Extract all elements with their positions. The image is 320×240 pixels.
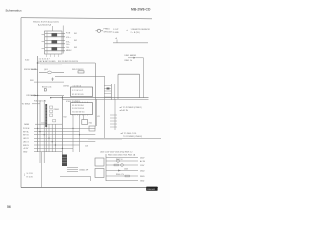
wire elbow to cluster xyxy=(142,57,144,59)
svg-text:L11: L11 xyxy=(97,116,100,118)
wire vertical x115 xyxy=(114,99,116,130)
IC U001 bottom pins xyxy=(73,114,88,117)
svg-text:P.ON H: P.ON H xyxy=(23,128,30,130)
node dot bus2 xyxy=(37,95,38,96)
frame bottom border xyxy=(21,187,158,189)
wire y176.5 xyxy=(60,176,91,178)
node dot bus y63 xyxy=(37,62,38,63)
svg-text:KEY B: KEY B xyxy=(23,135,29,137)
svg-text:FROM SW: FROM SW xyxy=(24,69,34,71)
svg-text:LED G: LED G xyxy=(23,142,29,144)
wire bus row y63 xyxy=(37,62,96,64)
svg-text:R601 C601 D601 T601 F601 1A: R601 C601 D601 T601 F601 1A xyxy=(108,154,136,157)
node dots ladder xyxy=(37,128,80,149)
wire y138.7 right xyxy=(88,139,122,141)
transistor Q1 xyxy=(39,71,64,74)
label block tag xyxy=(146,187,157,191)
svg-text:SW-501: SW-501 xyxy=(147,189,156,191)
wire SW row 6 xyxy=(45,50,65,52)
component P601 box xyxy=(95,158,104,166)
svg-text:PH801: PH801 xyxy=(104,29,111,31)
wire right row 3 xyxy=(106,170,138,172)
component X1 box xyxy=(82,120,88,125)
wire ladder row7 xyxy=(34,147,73,149)
lamp symbol row2 xyxy=(121,164,124,167)
IC U001 top pins xyxy=(73,101,88,104)
connector SW board outline xyxy=(45,31,63,54)
svg-text:D1 D2 D3 D4: D1 D2 D3 D4 xyxy=(72,108,85,110)
svg-text:CN701: CN701 xyxy=(63,85,70,87)
svg-text:R01 220 R02 220 R03 220: R01 220 R02 220 R03 220 xyxy=(58,61,78,63)
wire long y42.6 xyxy=(113,42,148,44)
svg-text:S1 S2 S3 S4: S1 S2 S3 S4 xyxy=(72,105,84,107)
svg-text:D801 MA165: D801 MA165 xyxy=(125,54,138,57)
wire pin stub p2 xyxy=(50,54,52,57)
wire y97.7 xyxy=(51,97,149,99)
wire node A stub xyxy=(116,40,118,43)
component small d xyxy=(44,89,46,91)
svg-text:CN601: CN601 xyxy=(54,109,60,111)
resistor R1 xyxy=(78,71,84,73)
connector CN701 box xyxy=(71,87,93,97)
wire vertical x62.4 xyxy=(61,96,63,155)
wire cluster to vertical xyxy=(136,57,144,59)
svg-text:LED R: LED R xyxy=(23,138,29,140)
svg-text:230V: 230V xyxy=(140,157,145,159)
wire vertical x79.5 xyxy=(79,115,81,153)
wire vertical x44 xyxy=(43,100,45,163)
wire y82 xyxy=(34,81,64,83)
wire pin stub p1 xyxy=(46,54,48,57)
wire faint y64.5 xyxy=(40,64,62,66)
svg-text:VOL-: VOL- xyxy=(66,41,71,43)
wire vertical x73 xyxy=(72,115,74,153)
svg-text:CN602 4P: CN602 4P xyxy=(79,169,89,171)
wire CN602 row c xyxy=(67,170,78,172)
wire ladder row1 xyxy=(34,127,95,129)
wire SW row 5 xyxy=(45,47,65,49)
wire SW row 1 xyxy=(45,33,65,35)
wire right row 4 xyxy=(106,175,138,177)
svg-text:SW-DC B (TV) board (1/2): SW-DC B (TV) board (1/2) xyxy=(33,20,59,23)
svg-text:DATA: DATA xyxy=(24,123,29,126)
switch S2 xyxy=(52,40,58,43)
component D601 box xyxy=(89,126,95,131)
wire stub left s3 xyxy=(42,48,45,50)
hatch cluster stubs xyxy=(110,115,117,127)
wire ladder row5 xyxy=(34,141,95,143)
svg-text:SIRCS: SIRCS xyxy=(23,145,30,147)
wire right bus x106 xyxy=(105,154,107,181)
connector CN602 dark xyxy=(62,155,67,167)
wire vertical x95.3 xyxy=(94,63,96,127)
svg-text:+B 5V: +B 5V xyxy=(23,148,29,150)
wire vertical x143.4 xyxy=(142,58,144,98)
wire horizontal y74.2 xyxy=(118,73,140,75)
svg-text:L601 0.047 250V C605 470p: L601 0.047 250V C605 470p R609 2.2 xyxy=(100,151,132,153)
wire vertical x139.5 xyxy=(139,74,141,98)
svg-text:KEY A KEY B GND: KEY A KEY B GND xyxy=(39,60,57,63)
sensor PH1 symbol xyxy=(96,29,104,32)
wire ladder row0 xyxy=(35,123,62,125)
wire y99.3 xyxy=(62,98,148,100)
svg-text:TO SW-B: TO SW-B xyxy=(22,104,31,106)
svg-text:GND: GND xyxy=(140,180,145,182)
svg-text:R605: R605 xyxy=(140,176,145,178)
svg-text:Schematics: Schematics xyxy=(6,8,22,12)
wire right row 2 xyxy=(106,164,138,166)
svg-text:1 2 3 4 5 6 7: 1 2 3 4 5 6 7 xyxy=(72,90,84,92)
wire vertical x118 xyxy=(117,74,119,99)
svg-text:C21 0.1: C21 0.1 xyxy=(41,122,47,124)
frame top border xyxy=(21,18,152,19)
wire CN602 row b xyxy=(67,169,78,171)
svg-text:CH+: CH+ xyxy=(66,44,70,46)
contact symbol c2 xyxy=(50,110,53,112)
svg-text:1 OUT: 1 OUT xyxy=(113,29,119,31)
wire pin stub p4 xyxy=(58,54,60,57)
svg-text:S01: S01 xyxy=(74,33,77,35)
wire IC drop x83.5 xyxy=(83,115,85,120)
diode right row 3 xyxy=(118,170,121,172)
wire pin stub p3 xyxy=(54,54,56,57)
wire y76.5 xyxy=(55,76,105,78)
contact symbol c4 xyxy=(53,120,56,122)
arrow FROM SW xyxy=(35,68,38,70)
wire TO SW-B arrow xyxy=(32,103,40,105)
svg-text:BC02 0.01: BC02 0.01 xyxy=(42,87,52,89)
svg-text:◄1 TO POWER (CN801): ◄1 TO POWER (CN801) xyxy=(119,106,142,109)
svg-text:2 GND: 2 GND xyxy=(113,32,119,34)
svg-text:2 + B (5V): 2 + B (5V) xyxy=(131,32,140,34)
component P602 box xyxy=(95,169,104,178)
svg-text:115V: 115V xyxy=(140,165,145,167)
switch S3 xyxy=(52,47,58,50)
diode D801 xyxy=(128,57,136,59)
node dot y97 start xyxy=(50,97,51,98)
connector CN601 hatch xyxy=(45,107,47,122)
svg-text:MENU: MENU xyxy=(66,50,72,52)
wire vertical x49 xyxy=(48,124,50,152)
contact symbol c3 xyxy=(50,114,53,116)
wire ladder row8 xyxy=(34,151,62,153)
svg-text:G1 G2 G3 G4: G1 G2 G3 G4 xyxy=(72,111,85,113)
wire main left bus xyxy=(37,56,39,152)
svg-text:D602: D602 xyxy=(140,170,145,172)
svg-text:GND: GND xyxy=(23,152,28,154)
svg-text:VOL+: VOL+ xyxy=(66,37,71,39)
connector CN602 hatch white xyxy=(62,157,66,163)
wire vertical x96.7 xyxy=(96,99,98,126)
arrow FROM IC xyxy=(35,95,38,97)
wire ladder row3 xyxy=(34,134,95,136)
wire vertical x104.5 xyxy=(104,77,106,139)
svg-text:◄3 TO DEG COIL: ◄3 TO DEG COIL xyxy=(120,132,137,135)
svg-text:R03: R03 xyxy=(30,80,33,82)
svg-text:1 REMOTE SENSOR: 1 REMOTE SENSOR xyxy=(131,29,151,31)
IC U001 box xyxy=(71,103,93,115)
svg-text:AC IN: AC IN xyxy=(140,160,146,163)
svg-text:56: 56 xyxy=(7,205,11,209)
svg-text:R05 1SS133: R05 1SS133 xyxy=(72,69,84,71)
lamp symbol row1 xyxy=(117,160,120,163)
wire SW row 2 xyxy=(45,36,65,38)
resistor right row4 rect xyxy=(125,175,130,177)
svg-text:S02: S02 xyxy=(74,40,77,42)
wire y95.4 xyxy=(31,94,64,96)
wire vertical x55 xyxy=(54,124,56,152)
frame left border xyxy=(20,18,22,188)
wire stub left s2 xyxy=(42,41,45,43)
wire vertical x40 xyxy=(39,100,41,163)
wire vertical x52 xyxy=(51,124,53,152)
wire ladder row2 xyxy=(34,131,80,133)
capacitor C1 xyxy=(51,78,54,82)
svg-text:R22: R22 xyxy=(64,117,67,119)
wire right row 1 xyxy=(106,160,138,162)
svg-text:S03: S03 xyxy=(74,47,77,49)
contact symbol c1 xyxy=(50,106,53,108)
wire vertical x43.5 low xyxy=(41,152,43,188)
wire right row 0 xyxy=(106,157,138,159)
wire drop x90.6 xyxy=(90,177,92,182)
svg-text:S: 2.5V: S: 2.5V xyxy=(27,173,34,175)
svg-text:GP1U52X: GP1U52X xyxy=(104,32,114,34)
svg-text:K1 K2 K3 LD: K1 K2 K3 LD xyxy=(72,94,84,96)
wire ladder row6 xyxy=(34,144,80,146)
node dot y97 xyxy=(62,97,63,98)
hatch connector pair vertical xyxy=(111,84,114,100)
svg-text:◄2 AC IN: ◄2 AC IN xyxy=(119,109,128,112)
wire CN602 row a xyxy=(67,167,78,169)
wire right row 5 xyxy=(106,180,138,182)
switch S1 xyxy=(52,33,58,36)
wire CN601 tail xyxy=(45,127,47,152)
resistor right row2 rect xyxy=(114,164,119,166)
svg-text:R801 1k: R801 1k xyxy=(125,60,132,62)
wire stubs hatch pair xyxy=(104,86,111,98)
wire arrow into bus 1 xyxy=(31,68,38,70)
wire stub from title xyxy=(52,26,54,31)
wire SW row 3 xyxy=(45,40,65,42)
wire ladder row4 xyxy=(34,137,161,139)
wire stub left s1 xyxy=(42,34,45,36)
wire rail left inside SW box xyxy=(46,32,48,54)
wire SW row 4 xyxy=(45,43,65,45)
svg-text:KEY A: KEY A xyxy=(23,130,29,133)
connector CN601 dark bar xyxy=(45,104,47,127)
svg-text:CH-: CH- xyxy=(66,47,70,49)
svg-text:MB-2W8-CD: MB-2W8-CD xyxy=(131,8,151,12)
svg-text:A-1234-567-A: A-1234-567-A xyxy=(38,23,52,26)
svg-text:C23: C23 xyxy=(85,146,88,148)
component blob xyxy=(107,88,110,90)
wire rail right of SW box xyxy=(62,26,64,54)
svg-text:P.ON: P.ON xyxy=(66,33,71,35)
svg-text:R: 0.5V: R: 0.5V xyxy=(27,177,34,179)
svg-text:TO POWER (CN602): TO POWER (CN602) xyxy=(123,136,142,138)
